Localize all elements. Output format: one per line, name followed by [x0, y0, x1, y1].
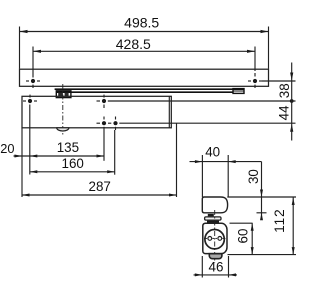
valve axis centerline [204, 237, 207, 239]
svg-text:44: 44 [277, 105, 292, 120]
svg-text:112: 112 [272, 208, 287, 232]
pinion boss semicircle [57, 128, 69, 131]
rail bottom edge extension tick [257, 212, 267, 214]
svg-text:46: 46 [209, 260, 224, 275]
dim 498.5 right extension [268, 27, 270, 69]
svg-text:287: 287 [89, 179, 111, 194]
dim 498.5 left extension [19, 27, 21, 69]
dim 46 left extension [201, 256, 203, 278]
rail top edge extension to 112 dim [227, 196, 296, 198]
body hole bottom-mid2 [108, 117, 118, 131]
top hole axis extension to 38/44 dim [108, 100, 296, 102]
slide channel bottom line [56, 91, 233, 93]
svg-text:135: 135 [57, 140, 79, 155]
hole column extension (x=114.7) [114, 130, 116, 175]
hole column extension (x=104) [103, 130, 105, 161]
dim 60 vertical line [251, 223, 254, 254]
svg-text:20: 20 [0, 141, 14, 156]
valve hole left [208, 237, 212, 241]
svg-text:30: 30 [246, 169, 261, 184]
rail hole right [248, 73, 262, 88]
body hole top-left [23, 95, 37, 104]
dim 46 line [194, 273, 238, 276]
end cap circle [205, 230, 224, 249]
body hole bottom-mid1 [97, 117, 107, 131]
dim 112 vertical line [292, 198, 295, 255]
dim 40 left extension [201, 155, 203, 197]
svg-text:60: 60 [235, 229, 250, 244]
dim 428.5 line [33, 50, 255, 53]
slide channel top line [55, 88, 244, 90]
svg-text:160: 160 [62, 156, 84, 171]
svg-text:498.5: 498.5 [124, 15, 159, 31]
arm shoe block [56, 91, 71, 98]
svg-text:38: 38 [277, 83, 292, 98]
287 right extension (x=176.5) [176, 123, 178, 197]
dim 287 line [22, 194, 177, 197]
spindle lower block [207, 221, 219, 224]
dim 60 top extension [230, 222, 253, 224]
dim 30 vertical line [260, 162, 263, 221]
svg-text:428.5: 428.5 [116, 36, 151, 52]
hole column extension (x=29.8) [29, 105, 31, 175]
dim 498.5 line [20, 30, 269, 33]
rail hole left [26, 79, 40, 88]
rail cross-section (side view) [202, 197, 227, 213]
adjustment bump [209, 254, 222, 259]
body left edge extension down [21, 128, 23, 197]
dim 38/44 vertical line [290, 63, 294, 141]
dim 20/135 line row [14, 155, 105, 158]
side view centerline [214, 210, 216, 263]
pinion shaft block [208, 214, 214, 217]
body hole top-mid [97, 95, 107, 108]
svg-text:40: 40 [205, 145, 220, 160]
closer body (plan view) [22, 96, 171, 128]
valve hole right [218, 237, 222, 241]
dim 160 line [30, 170, 115, 173]
dim 40 right extension [227, 155, 229, 197]
rail hole axis extension to 38 dim [262, 80, 296, 82]
dim 40 line [190, 160, 262, 163]
body end cap line [168, 96, 170, 128]
slide rail (plan view) [20, 69, 269, 86]
dim 428.5 left extension [32, 47, 34, 78]
body bottom edge extension [228, 254, 297, 256]
channel end cap [233, 89, 244, 94]
spindle collar [205, 217, 221, 220]
closer body (side view) [203, 223, 227, 253]
dim 428.5 right extension [254, 47, 256, 72]
dim 46 right extension [228, 256, 230, 278]
bottom hole axis extension to 44 dim [119, 122, 295, 124]
body centerline (pinion axis) [62, 84, 64, 136]
